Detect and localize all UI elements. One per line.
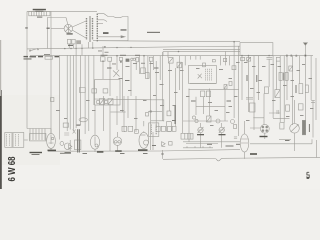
svg-text:6 W 68: 6 W 68 xyxy=(7,156,18,181)
